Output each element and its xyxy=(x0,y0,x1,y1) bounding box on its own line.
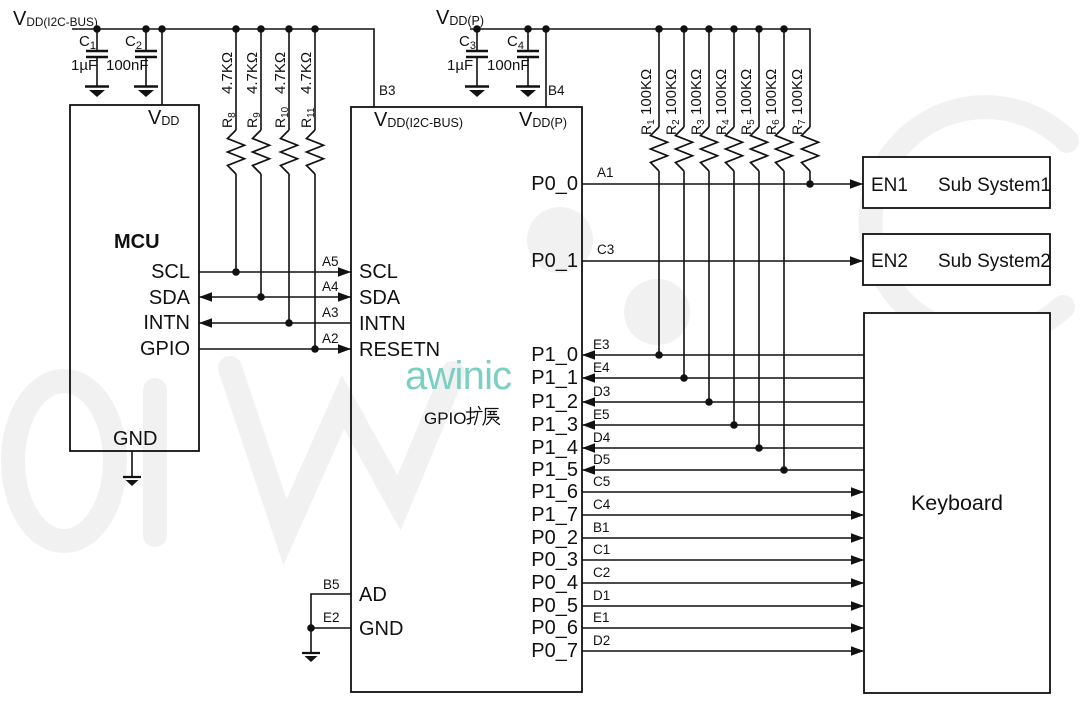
svg-text:100KΩ: 100KΩ xyxy=(763,69,780,115)
svg-text:EN1: EN1 xyxy=(871,175,908,196)
svg-text:A1: A1 xyxy=(597,165,614,180)
svg-text:Keyboard: Keyboard xyxy=(911,491,1003,515)
svg-text:100KΩ: 100KΩ xyxy=(789,69,806,115)
svg-text:GPIO: GPIO xyxy=(424,409,467,428)
svg-text:100KΩ: 100KΩ xyxy=(688,69,705,115)
svg-text:P0_6: P0_6 xyxy=(531,617,578,639)
svg-text:4.7KΩ: 4.7KΩ xyxy=(298,52,315,94)
svg-text:D3: D3 xyxy=(593,384,610,399)
svg-text:GPIO: GPIO xyxy=(140,338,190,360)
svg-text:P0_4: P0_4 xyxy=(531,572,578,594)
svg-text:P1_7: P1_7 xyxy=(531,504,578,526)
svg-text:C1: C1 xyxy=(593,542,610,557)
svg-text:P1_2: P1_2 xyxy=(531,391,578,413)
svg-text:E5: E5 xyxy=(593,407,610,422)
svg-text:Sub System2: Sub System2 xyxy=(938,251,1051,272)
svg-text:P0_3: P0_3 xyxy=(531,549,578,571)
svg-text:SCL: SCL xyxy=(151,261,190,283)
svg-text:INTN: INTN xyxy=(143,312,190,334)
svg-text:100KΩ: 100KΩ xyxy=(663,69,680,115)
svg-text:P0_1: P0_1 xyxy=(531,250,578,272)
svg-text:awinic: awinic xyxy=(405,354,511,398)
svg-text:A3: A3 xyxy=(322,305,339,320)
svg-text:E3: E3 xyxy=(593,337,610,352)
svg-text:MCU: MCU xyxy=(114,231,160,253)
svg-text:P0_2: P0_2 xyxy=(531,527,578,549)
svg-text:D2: D2 xyxy=(593,633,610,648)
svg-text:P1_0: P1_0 xyxy=(531,344,578,366)
svg-text:AD: AD xyxy=(359,584,387,606)
svg-text:100nF: 100nF xyxy=(487,57,530,74)
svg-text:A2: A2 xyxy=(322,331,339,346)
svg-text:100nF: 100nF xyxy=(106,57,149,74)
svg-text:P1_1: P1_1 xyxy=(531,367,578,389)
svg-text:P1_6: P1_6 xyxy=(531,481,578,503)
svg-text:100KΩ: 100KΩ xyxy=(638,69,655,115)
svg-text:P0_0: P0_0 xyxy=(531,173,578,195)
svg-text:GND: GND xyxy=(113,428,157,450)
svg-text:C2: C2 xyxy=(593,565,610,580)
svg-text:100KΩ: 100KΩ xyxy=(713,69,730,115)
svg-text:D5: D5 xyxy=(593,452,610,467)
svg-text:EN2: EN2 xyxy=(871,251,908,272)
svg-text:B1: B1 xyxy=(593,520,610,535)
svg-text:GND: GND xyxy=(359,618,403,640)
svg-text:4.7KΩ: 4.7KΩ xyxy=(272,52,289,94)
svg-text:4.7KΩ: 4.7KΩ xyxy=(244,52,261,94)
svg-text:SDA: SDA xyxy=(359,287,401,309)
svg-text:B3: B3 xyxy=(379,83,396,98)
svg-text:1µF: 1µF xyxy=(447,57,473,74)
svg-text:P1_3: P1_3 xyxy=(531,414,578,436)
svg-text:A4: A4 xyxy=(322,279,339,294)
svg-text:SCL: SCL xyxy=(359,261,398,283)
svg-text:P1_5: P1_5 xyxy=(531,459,578,481)
svg-text:100KΩ: 100KΩ xyxy=(738,69,755,115)
svg-text:B4: B4 xyxy=(548,83,565,98)
svg-text:C5: C5 xyxy=(593,474,610,489)
svg-text:E1: E1 xyxy=(593,610,610,625)
svg-text:B5: B5 xyxy=(323,577,340,592)
svg-text:D1: D1 xyxy=(593,588,610,603)
svg-text:1µF: 1µF xyxy=(71,57,97,74)
svg-text:P0_7: P0_7 xyxy=(531,640,578,662)
svg-text:C3: C3 xyxy=(597,242,614,257)
svg-text:P1_4: P1_4 xyxy=(531,437,578,459)
svg-text:D4: D4 xyxy=(593,430,611,445)
svg-text:INTN: INTN xyxy=(359,313,406,335)
svg-text:SDA: SDA xyxy=(149,287,191,309)
svg-text:E2: E2 xyxy=(323,610,340,625)
svg-text:A5: A5 xyxy=(322,254,339,269)
svg-text:E4: E4 xyxy=(593,360,610,375)
svg-text:4.7KΩ: 4.7KΩ xyxy=(219,52,236,94)
svg-text:Sub System1: Sub System1 xyxy=(938,175,1051,196)
svg-text:C4: C4 xyxy=(593,497,611,512)
svg-text:P0_5: P0_5 xyxy=(531,595,578,617)
